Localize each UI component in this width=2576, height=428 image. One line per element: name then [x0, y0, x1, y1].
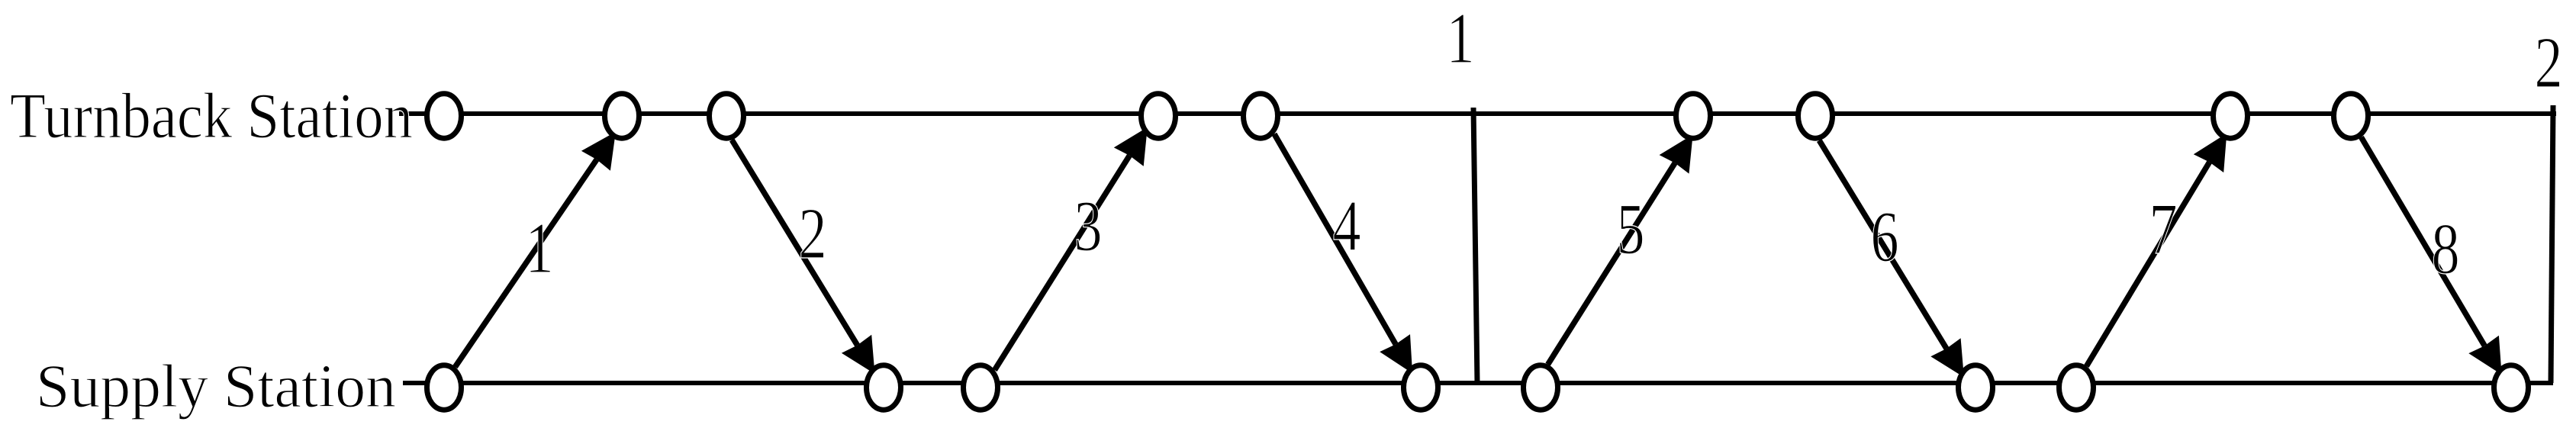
svg-text:6: 6	[1870, 197, 1898, 277]
svg-text:5: 5	[1616, 189, 1644, 269]
svg-text:3: 3	[1074, 186, 1102, 266]
svg-text:7: 7	[2149, 189, 2177, 269]
svg-text:8: 8	[2431, 209, 2459, 289]
svg-text:1: 1	[1446, 0, 1474, 79]
svg-text:Supply Station: Supply Station	[36, 352, 396, 420]
svg-text:1: 1	[525, 208, 553, 288]
svg-text:Turnback Station: Turnback Station	[10, 79, 413, 151]
svg-text:2: 2	[2534, 23, 2562, 103]
svg-text:2: 2	[798, 194, 826, 274]
svg-text:4: 4	[1332, 186, 1360, 266]
